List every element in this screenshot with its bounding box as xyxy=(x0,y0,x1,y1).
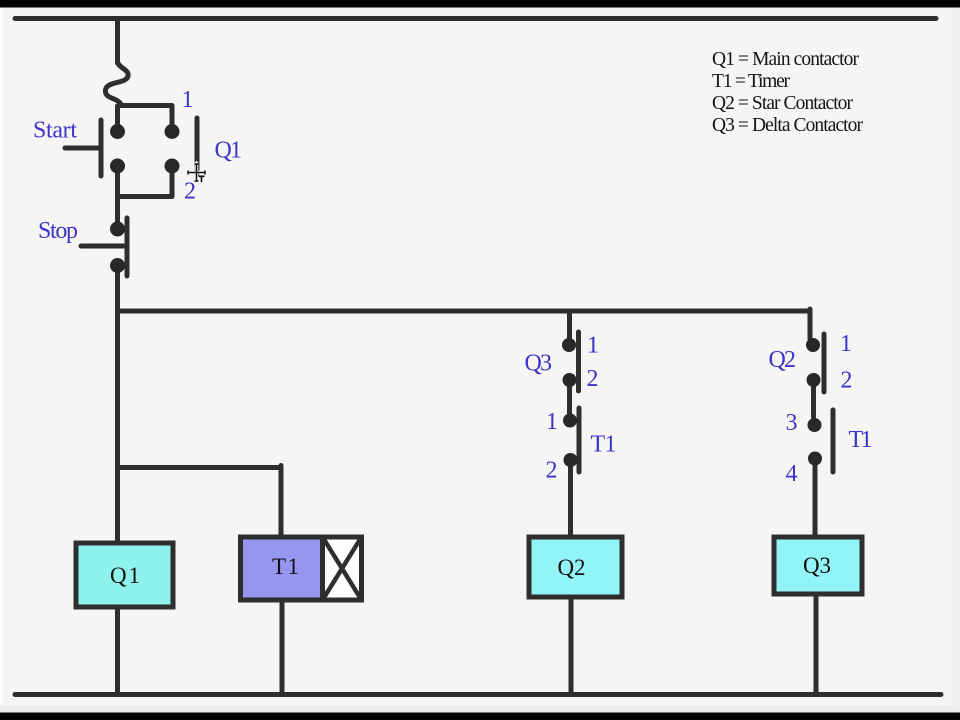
svg-text:2: 2 xyxy=(841,368,853,394)
svg-text:Q3: Q3 xyxy=(803,553,831,578)
svg-text:Q2: Q2 xyxy=(769,347,797,373)
svg-text:2: 2 xyxy=(546,458,558,484)
svg-text:T1 = Timer: T1 = Timer xyxy=(712,71,791,92)
svg-text:3: 3 xyxy=(786,410,798,436)
svg-text:2: 2 xyxy=(587,366,599,392)
svg-text:1: 1 xyxy=(546,409,558,435)
svg-text:T1: T1 xyxy=(591,432,617,458)
svg-text:Stop: Stop xyxy=(38,218,78,244)
svg-text:Q1 = Main contactor: Q1 = Main contactor xyxy=(712,49,860,70)
svg-text:Start: Start xyxy=(33,118,77,144)
svg-text:4: 4 xyxy=(786,461,798,487)
svg-text:Q1: Q1 xyxy=(110,563,140,588)
svg-text:2: 2 xyxy=(184,179,196,205)
svg-text:Q1: Q1 xyxy=(215,138,243,164)
svg-text:1: 1 xyxy=(587,333,599,359)
svg-text:Q2 = Star Contactor: Q2 = Star Contactor xyxy=(712,93,854,114)
svg-text:1: 1 xyxy=(182,87,194,113)
svg-text:T1: T1 xyxy=(849,427,873,453)
svg-text:T1: T1 xyxy=(272,554,299,579)
svg-text:Q3 = Delta Contactor: Q3 = Delta Contactor xyxy=(712,115,864,136)
svg-text:Q3: Q3 xyxy=(525,351,553,377)
svg-text:Q2: Q2 xyxy=(558,555,586,580)
svg-text:1: 1 xyxy=(840,331,852,357)
